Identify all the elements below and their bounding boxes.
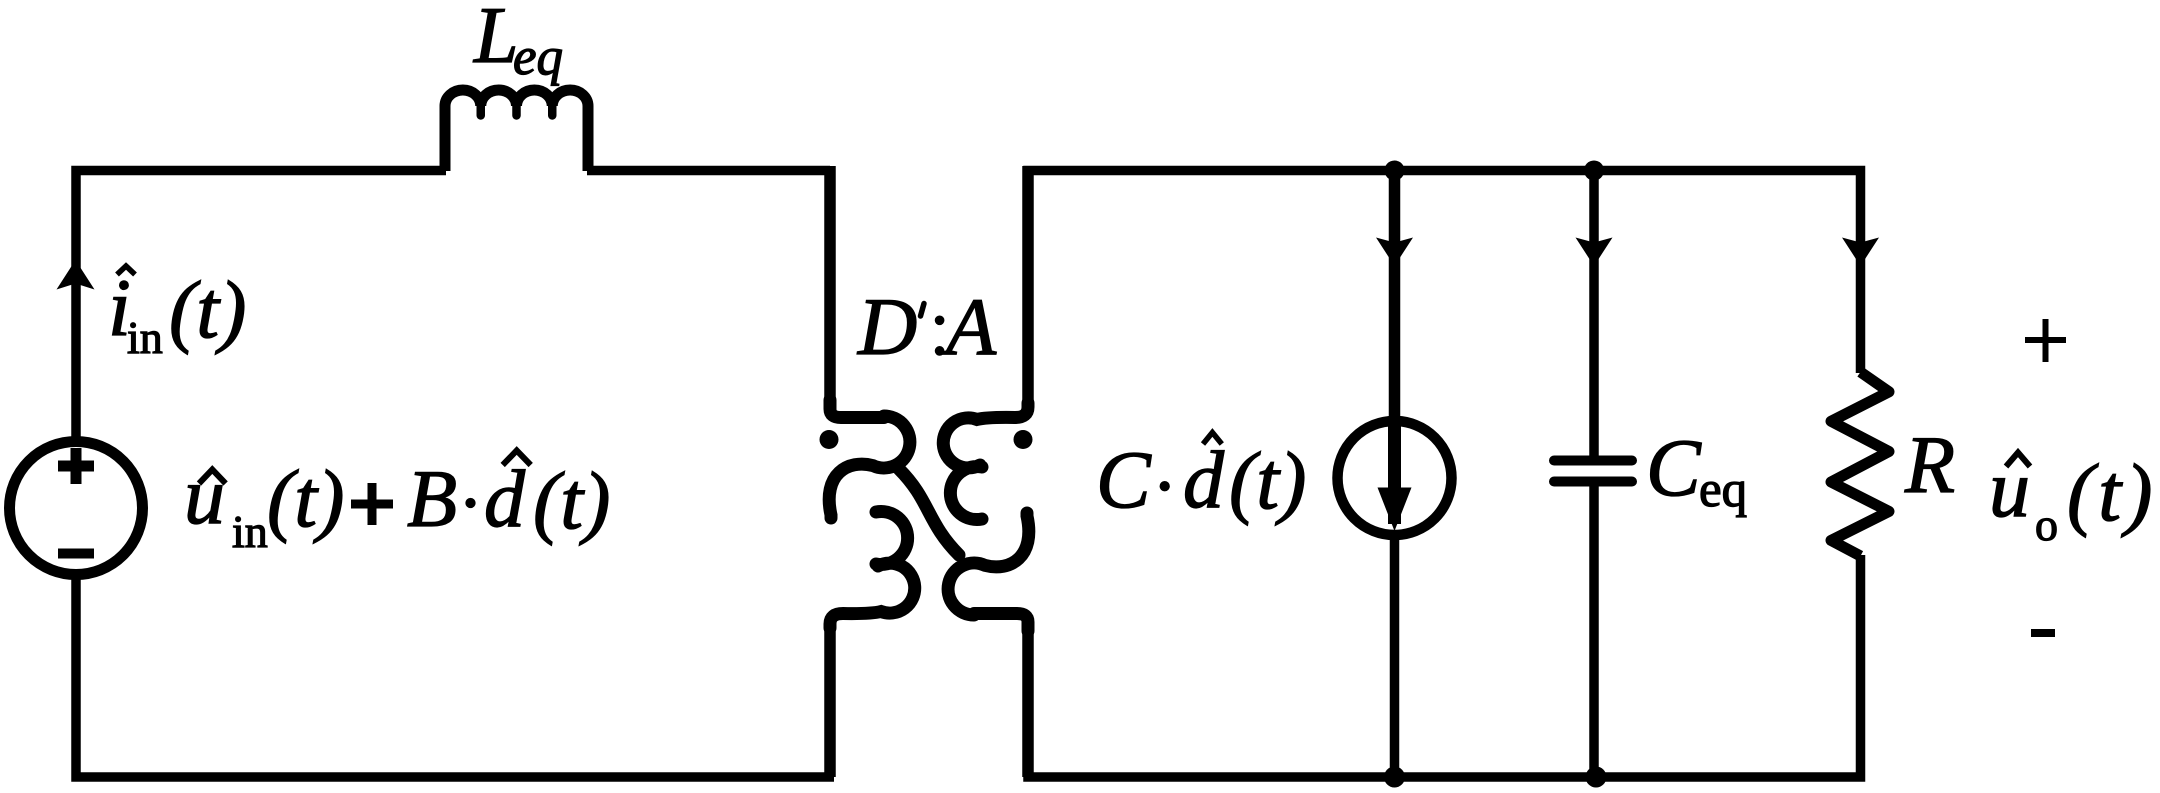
voltage source minus sign <box>58 549 94 559</box>
arrow on capacitor branch (down) <box>1576 238 1613 267</box>
inductor cusp tail 1 <box>477 104 486 116</box>
output plus sign <box>2025 319 2066 362</box>
svg-text:eq: eq <box>513 28 563 86</box>
svg-text:B: B <box>407 453 457 544</box>
svg-text:o: o <box>2035 499 2058 550</box>
wire: left loop bottom run <box>76 576 834 777</box>
transformer coupling diagonal <box>899 469 959 555</box>
transformer primary winding <box>829 400 915 628</box>
svg-text:(t): (t) <box>533 455 610 546</box>
voltage source circle <box>10 442 143 575</box>
wire: left loop top (inductor to transformer corner) <box>587 166 830 176</box>
wire: transformer primary bottom lead <box>824 620 836 777</box>
output minus sign <box>2031 629 2055 637</box>
wire: transformer secondary top lead <box>1022 166 1034 412</box>
svg-text:L: L <box>473 0 519 80</box>
transformer secondary winding <box>943 403 1029 631</box>
svg-text:(t): (t) <box>2067 447 2156 538</box>
current source arrow shaft <box>1388 421 1401 524</box>
svg-text:R: R <box>1904 419 1955 510</box>
wire: current source branch top <box>1389 170 1401 421</box>
inductor cusp tail 3 <box>548 104 557 116</box>
junction node bottom-right <box>1586 767 1607 788</box>
transformer dot primary <box>820 430 839 449</box>
svg-text:(t): (t) <box>1229 435 1306 526</box>
svg-text:in: in <box>127 312 163 363</box>
arrow on current source branch (down) <box>1376 238 1413 267</box>
wire: transformer secondary bottom lead <box>1022 620 1034 777</box>
inductor cusp tail 2 <box>512 104 521 116</box>
voltage source plus sign <box>58 448 94 484</box>
svg-text:eq: eq <box>1699 462 1747 518</box>
junction node top-left <box>1385 161 1405 181</box>
arrow on resistor branch (down) <box>1842 238 1879 267</box>
wire: capacitor branch bottom <box>1589 482 1599 777</box>
arrow i_in (up) <box>57 260 95 290</box>
wire: right loop top run <box>1028 171 1861 413</box>
current source circle <box>1338 421 1452 535</box>
svg-text:C: C <box>1096 434 1152 525</box>
wire: transformer primary top lead <box>824 166 836 412</box>
svg-text:D: D <box>857 281 917 372</box>
junction node top-right <box>1584 161 1604 181</box>
current source arrowhead <box>1378 488 1412 532</box>
capacitor Ceq plates <box>1554 461 1632 482</box>
svg-text:d: d <box>1183 434 1225 525</box>
wire: current source branch bottom <box>1390 534 1400 777</box>
svg-text:(t): (t) <box>267 453 344 544</box>
resistor R zigzag <box>1831 372 1889 556</box>
svg-text:A: A <box>941 281 997 372</box>
svg-text:(t): (t) <box>169 264 246 355</box>
svg-text:u: u <box>184 450 225 541</box>
wire: right loop bottom run <box>1028 555 1861 777</box>
junction node bottom-left <box>1384 767 1405 788</box>
wire: left loop top (left wire up + top run to inductor) <box>76 171 446 441</box>
svg-text:C: C <box>1646 422 1702 513</box>
inductor Leq <box>445 90 588 171</box>
wire: capacitor branch top <box>1589 170 1599 460</box>
svg-text:in: in <box>232 506 268 557</box>
transformer dot secondary <box>1014 430 1033 449</box>
